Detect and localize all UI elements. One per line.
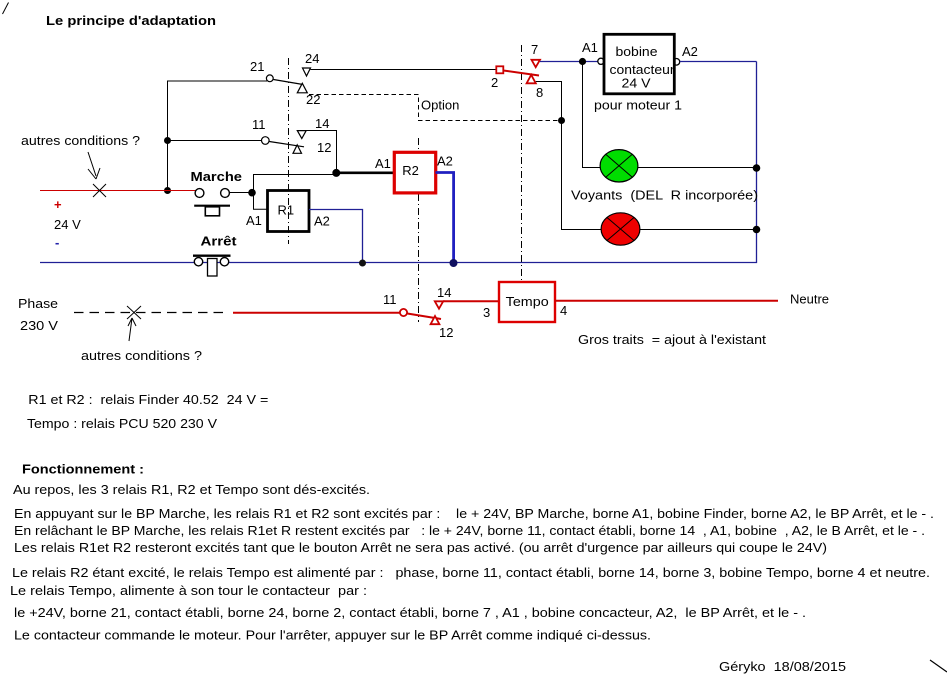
svg-text:12: 12 [439,325,453,340]
node junction at A1 / green lamp branch [579,58,586,65]
wire: bobine A2 to blue rail [680,61,757,63]
node junction after Marche button [248,189,256,197]
wire: rail to contact 11 [168,140,263,142]
green lamp voyant [600,150,638,182]
wire: left vertical rail +24V [168,81,268,191]
svg-text:24: 24 [305,51,319,66]
svg-text:12: 12 [317,140,331,155]
dash-dot line through R2 down to Tempo contact [418,138,420,322]
wire: Marche to R1 [230,192,254,194]
wire: R1 A2 to minus rail [309,210,363,263]
svg-text:Géryko 18/08/2015: Géryko 18/08/2015 [719,659,846,674]
svg-text:Les relais R1et R2 resteront e: Les relais R1et R2 resteront excités tan… [14,540,827,555]
push button Marche (NO) [194,189,230,216]
svg-text:3: 3 [483,305,490,320]
node junction R1-A2 on minus rail [359,260,366,267]
svg-text:11: 11 [252,117,266,132]
svg-text:Tempo : relais PCU 520 230 V: Tempo : relais PCU 520 230 V [27,416,217,431]
corner tick bottom right [930,660,947,672]
svg-text:230 V: 230 V [20,318,58,333]
red lamp voyant [601,213,640,245]
node junction dashed option on wire 8 [558,117,565,124]
svg-text:A1: A1 [375,156,391,171]
svg-text:11: 11 [383,292,397,307]
svg-text:Tempo: Tempo [506,294,549,309]
relay R1 [268,191,310,232]
arrow from label to X mark [88,152,100,179]
wire: contact 24 to contact 2 [311,69,497,71]
svg-text:R1 et R2 : relais Finder 40.5: R1 et R2 : relais Finder 40.52 24 V = [28,392,268,407]
node junction on rail at contact 11 branch [164,137,171,144]
dash-dot line through contacts 21/11 and R1 [288,58,290,244]
node junction red lamp on blue rail [753,226,761,234]
svg-text:bobine: bobine [616,44,658,59]
svg-text:7: 7 [531,42,538,57]
svg-text:Voyants (DEL R incorporée): Voyants (DEL R incorporée) [571,188,758,203]
svg-text:le +24V, borne 21, contact éta: le +24V, borne 21, contact établi, borne… [14,605,806,620]
blue minus rail [40,62,757,263]
wire: branch up from Marche node [254,175,337,193]
svg-text:pour moteur 1: pour moteur 1 [594,98,682,113]
red wire: Tempo to Neutre [555,300,778,302]
wire: node down to R1 A1 [254,193,268,210]
wire: contact 8 down to red lamp [536,82,602,230]
thick wire: node to R2 A1 [337,171,395,174]
arrow to X mark (bottom) [128,318,136,341]
svg-text:24 V: 24 V [622,76,651,91]
svg-text:Le contacteur commande le mote: Le contacteur commande le moteur. Pour l… [14,628,651,643]
svg-text:Gros traits = ajout à l'exist: Gros traits = ajout à l'existant [578,332,766,347]
terminal A2 of bobine [673,59,680,66]
svg-text:En relâchant le BP Marche, les: En relâchant le BP Marche, les relais R1… [14,523,925,538]
wire: +24V red wire [40,190,196,192]
node junction rail / +24V wire [164,187,171,194]
svg-text:+: + [54,197,62,212]
svg-text:autres conditions ?: autres conditions ? [21,133,140,148]
svg-text:A1: A1 [246,213,262,228]
contact 11/14/12 of R2 (red, 230V) [400,301,443,324]
contact 21/24/22 of R2 [266,68,310,93]
svg-text:24 V: 24 V [54,217,81,232]
svg-text:-: - [55,235,59,250]
red wire: contact 14 to Tempo box [443,300,499,302]
svg-text:Le relais R2 étant excité, le: Le relais R2 étant excité, le relais Tem… [12,565,930,580]
svg-text:8: 8 [536,85,543,100]
svg-text:14: 14 [437,285,451,300]
wire: contact 7 to bobine A1 [540,61,598,63]
wire: red lamp to blue rail [640,229,757,231]
svg-text:Le relais Tempo, alimente à so: Le relais Tempo, alimente à son tour le … [10,583,367,598]
node junction green lamp on blue rail [753,164,761,172]
X mark on phase wire [127,306,141,319]
terminal A1 of bobine [598,58,604,64]
push button Arret (NC) [193,256,231,276]
svg-text:A2: A2 [682,44,698,59]
svg-text:Neutre: Neutre [790,292,829,307]
wire: green lamp to blue rail [638,167,757,169]
svg-text:Marche: Marche [191,169,243,184]
svg-text:Au repos, les 3 relais R1, R2: Au repos, les 3 relais R1, R2 et Tempo s… [13,482,370,497]
svg-text:R2: R2 [402,163,419,178]
svg-text:21: 21 [250,59,264,74]
relay R2 [394,152,435,193]
svg-text:Arrêt: Arrêt [201,234,238,249]
thick blue wire: R2 A2 to minus rail [436,173,454,263]
corner tick [3,3,9,15]
node junction at R2 coil wire [332,169,340,177]
svg-text:A2: A2 [314,214,330,229]
svg-text:A1: A1 [582,40,598,55]
wire: contact 14 down to R2 node [306,131,337,173]
svg-text:Le principe d'adaptation: Le principe d'adaptation [46,13,216,28]
svg-text:14: 14 [315,116,329,131]
node junction R2-A2 on minus rail [450,259,458,267]
X mark on +24V wire [93,184,106,197]
svg-text:4: 4 [560,303,567,318]
svg-text:Fonctionnement :: Fonctionnement : [22,462,144,477]
svg-text:A2: A2 [437,154,453,169]
svg-text:R1: R1 [278,203,295,218]
svg-text:autres conditions ?: autres conditions ? [81,348,202,363]
wire: A1 node down to green lamp [583,63,601,168]
svg-text:Phase: Phase [18,296,58,311]
contact 11/14/12 of R1 [262,131,307,154]
dashed wire: contact 22 to Option and contact 8 node [309,95,558,121]
dashed phase wire [74,312,223,314]
thick red phase wire [233,312,400,314]
Tempo relay box [499,282,555,322]
bobine contacteur box [604,34,674,94]
contact 2/7/8 of Tempo (red) [496,60,540,84]
svg-text:En appuyant sur le BP Marche,: En appuyant sur le BP Marche, les relais… [14,506,934,521]
svg-text:2: 2 [491,75,498,90]
svg-text:Option: Option [421,98,459,113]
dash-dot line through contact 2/7/8 down to Tempo box [521,45,523,281]
